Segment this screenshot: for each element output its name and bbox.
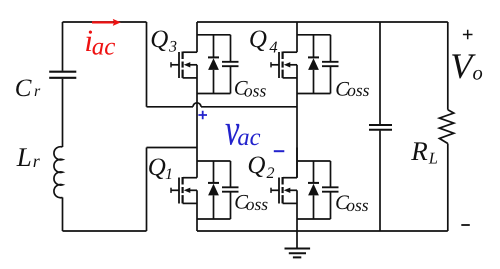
minus sign of Vo xyxy=(461,224,470,226)
label Coss of Q4 xyxy=(335,78,369,100)
diode D4 (body diode of Q4) xyxy=(308,35,319,94)
svg-text:1: 1 xyxy=(165,166,173,183)
wire: Cr bottom to Lr top xyxy=(62,79,64,147)
svg-text:r: r xyxy=(34,83,41,100)
diode D2 (body diode of Q2) xyxy=(308,161,319,219)
capacitor Coss (Q4) xyxy=(322,35,339,94)
capacitor Co (output filter) xyxy=(369,125,392,130)
wire: AC feed vertical from top wire xyxy=(146,22,148,107)
wire: Q4 cell inner top xyxy=(297,34,331,36)
wire: Q3 cell inner top xyxy=(197,34,231,36)
svg-text:oss: oss xyxy=(347,80,370,100)
wire: bottom DC bus xyxy=(197,230,448,232)
wire: output capacitor top lead xyxy=(379,22,381,124)
label i_ac xyxy=(84,23,115,61)
capacitor Cr xyxy=(49,72,76,78)
wire: crossover hop over left leg xyxy=(193,103,201,107)
label RL xyxy=(410,136,438,168)
svg-text:R: R xyxy=(410,136,428,166)
svg-text:r: r xyxy=(33,151,41,171)
wire: load bottom lead xyxy=(447,144,449,232)
label Q2 xyxy=(247,152,274,182)
wire: tank to Q1 drain rail xyxy=(147,147,198,149)
wire: tank right vertical up to node B rail xyxy=(146,148,148,232)
svg-text:Q: Q xyxy=(150,26,168,53)
svg-text:ac: ac xyxy=(237,124,260,151)
svg-text:oss: oss xyxy=(346,195,369,215)
inductor Lr xyxy=(54,147,63,198)
svg-text:oss: oss xyxy=(244,80,267,100)
wire: left leg vertical Q3 source to Q1 drain xyxy=(196,94,198,148)
wire: Q2 cell inner top xyxy=(297,160,331,162)
label Coss of Q3 xyxy=(234,77,267,100)
capacitor Coss (Q3) xyxy=(222,35,239,94)
plus sign of Vo xyxy=(463,30,473,40)
label Coss of Q2 xyxy=(335,192,369,215)
diode D3 (body diode of Q3) xyxy=(208,35,219,94)
svg-text:2: 2 xyxy=(267,165,275,182)
svg-text:oss: oss xyxy=(246,194,269,214)
plus sign of v_ac xyxy=(198,111,207,120)
current arrow i_ac xyxy=(92,19,121,26)
wire: Lr bottom lead xyxy=(62,197,64,231)
svg-text:Q: Q xyxy=(148,154,166,181)
wire: tank left vertical (top lead of Cr) xyxy=(62,22,64,71)
svg-text:ac: ac xyxy=(92,34,116,61)
wire: output capacitor bottom lead xyxy=(379,131,381,231)
svg-text:o: o xyxy=(473,63,483,85)
transistor Q2 xyxy=(271,148,331,220)
label Vo xyxy=(450,46,483,86)
minus sign of v_ac xyxy=(274,150,285,152)
capacitor Coss (Q2) xyxy=(322,161,339,219)
svg-text:C: C xyxy=(15,75,32,102)
svg-text:L: L xyxy=(16,142,32,172)
svg-text:4: 4 xyxy=(269,38,277,57)
wire: ac wire right segment to right leg xyxy=(201,106,297,108)
wire: Q1 cell inner top xyxy=(197,160,231,162)
label Lr xyxy=(16,142,41,172)
svg-text:Q: Q xyxy=(247,152,265,179)
wire: right leg vertical Q4 source to Q2 drain xyxy=(296,94,298,178)
diode D1 (body diode of Q1) xyxy=(208,161,219,219)
wire: load top lead xyxy=(447,22,449,110)
label Q1 xyxy=(148,154,173,183)
wire: ac wire left segment xyxy=(147,106,194,108)
svg-text:L: L xyxy=(428,148,438,167)
wire: Q2 source to bottom bus and ground lead xyxy=(296,219,298,249)
ground xyxy=(285,249,311,258)
label Coss of Q1 xyxy=(234,192,268,215)
transistor Q3 xyxy=(171,22,231,94)
wire: top DC bus xyxy=(197,21,448,23)
label Cr xyxy=(15,75,41,102)
capacitor Coss (Q1) xyxy=(222,161,239,219)
wire: bottom tank wire xyxy=(63,230,147,232)
transistor Q4 xyxy=(271,22,331,94)
wire: Q1 source to bottom bus xyxy=(196,219,198,231)
label Q4 xyxy=(249,26,278,57)
transistor Q1 xyxy=(171,148,231,220)
svg-text:Q: Q xyxy=(249,26,267,53)
resistor RL xyxy=(439,110,453,144)
svg-text:3: 3 xyxy=(168,39,177,56)
wire: top tank wire xyxy=(63,21,147,23)
label Q3 xyxy=(150,26,177,56)
label v_ac xyxy=(225,105,261,155)
